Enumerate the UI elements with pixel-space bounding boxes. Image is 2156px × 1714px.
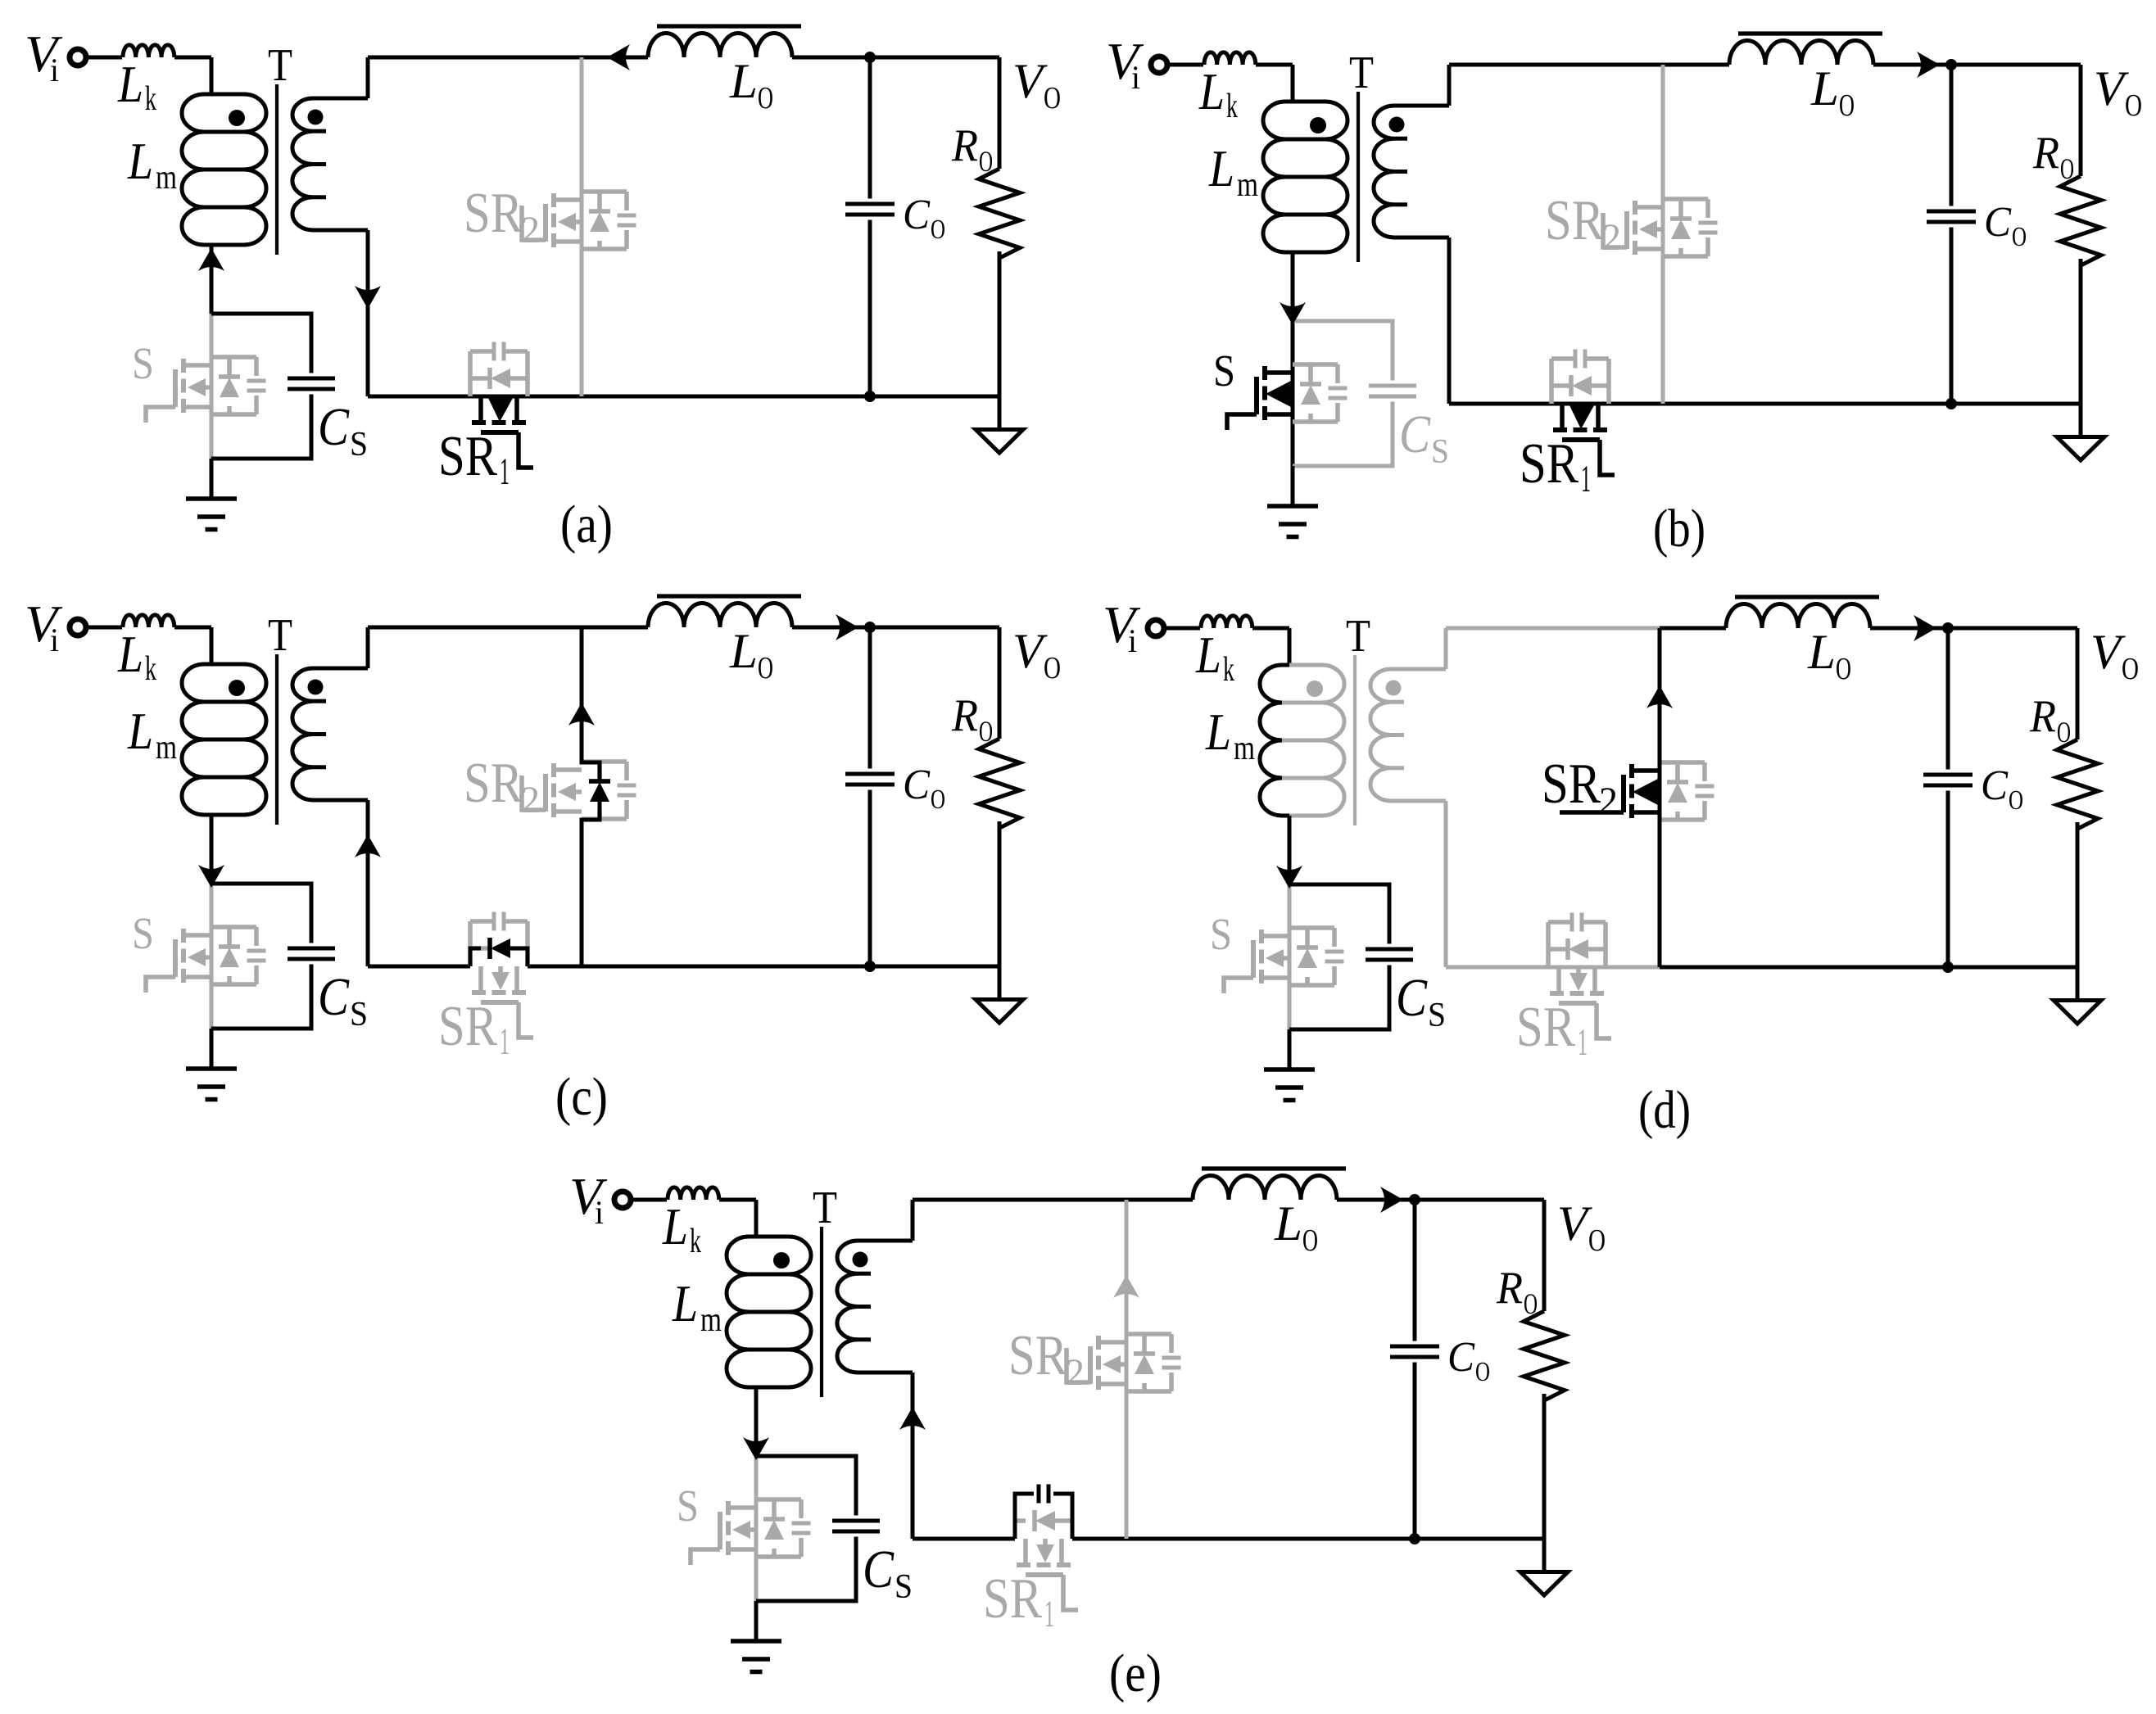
svg-text:(e): (e): [1109, 1644, 1162, 1703]
svg-text:C: C: [1984, 199, 2012, 246]
svg-text:k: k: [1226, 88, 1238, 125]
svg-text:R: R: [951, 690, 978, 741]
svg-text:SR: SR: [1545, 189, 1604, 252]
svg-text:L: L: [1274, 1196, 1302, 1250]
svg-text:L: L: [672, 1274, 698, 1332]
svg-text:m: m: [1237, 166, 1258, 204]
svg-text:R: R: [951, 120, 978, 171]
svg-text:O: O: [1302, 1223, 1318, 1258]
svg-text:2: 2: [521, 209, 540, 251]
svg-text:R: R: [2032, 128, 2059, 179]
svg-text:S: S: [350, 996, 368, 1033]
svg-text:L: L: [729, 624, 758, 678]
svg-text:1: 1: [1581, 458, 1591, 500]
svg-text:O: O: [2009, 785, 2023, 816]
svg-text:O: O: [1044, 651, 1061, 685]
svg-text:V: V: [2090, 625, 2126, 679]
svg-text:i: i: [595, 1194, 604, 1231]
svg-text:V: V: [1012, 624, 1048, 678]
svg-text:O: O: [979, 715, 993, 748]
svg-text:SR: SR: [1008, 1324, 1067, 1387]
svg-text:C: C: [1399, 405, 1431, 464]
svg-text:m: m: [1234, 730, 1255, 767]
svg-text:1: 1: [500, 450, 510, 493]
svg-text:k: k: [690, 1223, 701, 1260]
svg-text:i: i: [1131, 59, 1140, 96]
svg-text:T: T: [1349, 47, 1374, 98]
svg-text:SR: SR: [983, 1567, 1042, 1630]
svg-text:R: R: [2029, 691, 2056, 742]
svg-text:L: L: [117, 55, 143, 113]
svg-text:L: L: [1208, 139, 1234, 197]
svg-text:SR: SR: [1520, 432, 1578, 495]
svg-text:L: L: [1198, 62, 1225, 120]
svg-text:SR: SR: [1516, 996, 1575, 1059]
svg-text:C: C: [903, 762, 931, 808]
svg-text:L: L: [1205, 703, 1231, 761]
svg-text:2: 2: [1599, 780, 1618, 822]
svg-text:L: L: [1810, 61, 1839, 115]
svg-text:O: O: [2125, 88, 2142, 123]
svg-text:1: 1: [500, 1020, 510, 1063]
svg-text:i: i: [1128, 622, 1137, 659]
svg-text:T: T: [813, 1183, 837, 1233]
svg-text:L: L: [729, 54, 758, 108]
svg-text:V: V: [2094, 61, 2129, 115]
svg-text:S: S: [132, 338, 154, 388]
svg-text:O: O: [2057, 716, 2071, 748]
svg-text:O: O: [2122, 652, 2139, 686]
svg-text:S: S: [895, 1568, 913, 1606]
svg-text:i: i: [50, 52, 59, 88]
svg-text:C: C: [1396, 968, 1428, 1028]
svg-text:(b): (b): [1653, 499, 1705, 559]
svg-text:SR: SR: [1542, 753, 1601, 816]
svg-text:1: 1: [1578, 1021, 1588, 1064]
svg-text:(a): (a): [560, 495, 613, 554]
svg-text:O: O: [758, 81, 773, 115]
svg-text:L: L: [117, 625, 143, 683]
svg-text:V: V: [1557, 1196, 1592, 1250]
svg-text:O: O: [1475, 1357, 1490, 1387]
svg-text:L: L: [662, 1197, 688, 1255]
svg-text:m: m: [156, 159, 177, 197]
svg-text:(c): (c): [555, 1067, 608, 1127]
svg-text:O: O: [1588, 1223, 1606, 1258]
svg-text:O: O: [1524, 1287, 1538, 1320]
svg-text:m: m: [156, 729, 177, 767]
svg-text:L: L: [1807, 625, 1836, 679]
svg-text:i: i: [50, 622, 59, 658]
svg-text:k: k: [145, 80, 156, 118]
svg-text:C: C: [318, 967, 350, 1027]
svg-text:C: C: [318, 397, 350, 457]
svg-text:C: C: [903, 192, 931, 238]
svg-text:V: V: [1012, 54, 1048, 108]
svg-text:1: 1: [1044, 1593, 1054, 1635]
svg-text:R: R: [1496, 1263, 1523, 1314]
svg-text:m: m: [700, 1301, 722, 1339]
svg-text:2: 2: [1066, 1351, 1085, 1394]
svg-text:O: O: [1044, 81, 1061, 115]
svg-text:T: T: [1346, 611, 1370, 662]
svg-text:S: S: [1210, 909, 1232, 959]
svg-text:O: O: [1839, 88, 1855, 123]
svg-text:C: C: [863, 1540, 895, 1599]
svg-text:SR: SR: [464, 752, 523, 815]
svg-text:SR: SR: [438, 425, 497, 488]
svg-text:L: L: [127, 702, 153, 760]
svg-text:L: L: [127, 132, 153, 190]
svg-text:O: O: [931, 785, 945, 815]
svg-text:(d): (d): [1638, 1080, 1691, 1140]
svg-text:S: S: [1213, 346, 1235, 396]
svg-text:2: 2: [1602, 216, 1621, 259]
svg-text:S: S: [132, 908, 154, 958]
svg-text:S: S: [350, 426, 368, 464]
svg-text:O: O: [931, 215, 945, 245]
svg-text:S: S: [677, 1481, 699, 1531]
svg-text:L: L: [1195, 626, 1221, 684]
svg-text:O: O: [758, 651, 773, 685]
svg-text:O: O: [1836, 652, 1851, 686]
svg-text:k: k: [1223, 651, 1234, 689]
svg-text:O: O: [2012, 222, 2027, 252]
svg-text:S: S: [1431, 433, 1449, 471]
svg-text:SR: SR: [464, 182, 523, 245]
svg-text:T: T: [268, 610, 292, 661]
svg-text:2: 2: [521, 779, 540, 821]
svg-text:C: C: [1981, 762, 2009, 809]
svg-text:S: S: [1428, 997, 1446, 1034]
svg-text:k: k: [145, 650, 156, 688]
svg-text:SR: SR: [438, 995, 497, 1058]
svg-text:O: O: [979, 145, 993, 178]
svg-text:O: O: [2060, 152, 2074, 185]
svg-text:C: C: [1447, 1334, 1475, 1381]
svg-text:T: T: [268, 40, 292, 91]
